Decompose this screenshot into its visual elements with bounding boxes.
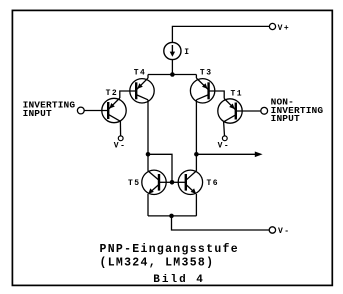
terminal inverting input xyxy=(77,107,84,114)
transistor T5 xyxy=(142,170,166,194)
svg-text:T1: T1 xyxy=(231,89,244,98)
wire: current source bottom to emitter rail xyxy=(171,60,173,75)
svg-text:T4: T4 xyxy=(134,69,147,78)
terminal non-inverting input xyxy=(261,107,268,114)
svg-text:PNP-Eingangsstufe: PNP-Eingangsstufe xyxy=(100,243,239,256)
svg-text:(LM324, LM358): (LM324, LM358) xyxy=(100,256,215,269)
wire: T6 emitter down xyxy=(195,194,197,216)
current source I xyxy=(164,42,181,59)
terminal V- under T1 xyxy=(222,136,227,141)
transistor T1 xyxy=(218,99,242,124)
svg-text:INPUT: INPUT xyxy=(23,108,52,119)
node: output junction xyxy=(194,152,199,157)
node: bottom rail junction xyxy=(169,214,174,219)
wire: bottom rail xyxy=(148,215,196,217)
svg-text:T5: T5 xyxy=(128,179,141,188)
wire: T1 collector down xyxy=(223,122,226,136)
wire: input to T2 base xyxy=(84,110,108,112)
svg-text:INPUT: INPUT xyxy=(271,113,300,124)
wire: T1 emitter to T3 base xyxy=(209,91,225,99)
svg-text:V-: V- xyxy=(114,142,127,151)
transistor T6 xyxy=(178,170,202,194)
wire: T5 emitter down xyxy=(147,194,149,216)
wire: current source top to V+ xyxy=(172,26,269,42)
svg-text:T2: T2 xyxy=(106,89,119,98)
wire: T6 base xyxy=(172,181,186,183)
transistor T4 xyxy=(130,75,154,104)
node: emitter rail junction xyxy=(170,72,175,77)
terminal V+ xyxy=(269,23,275,29)
wire: T2 collector down xyxy=(119,121,121,136)
wire: T4 collector down to mirror xyxy=(147,100,149,171)
transistor T2 xyxy=(102,98,126,123)
terminal V- bottom xyxy=(269,227,275,233)
svg-text:T6: T6 xyxy=(207,179,220,188)
wire: bottom rail to V- xyxy=(172,216,270,230)
svg-text:V+: V+ xyxy=(278,24,291,33)
node: T5/T6 base junction xyxy=(170,180,175,185)
svg-text:Bild 4: Bild 4 xyxy=(153,274,205,286)
wire: emitter rail xyxy=(148,74,196,76)
wire: T5 base xyxy=(159,181,172,183)
svg-text:T3: T3 xyxy=(200,69,213,78)
wire: mirror base feed xyxy=(148,154,172,182)
terminal V- under T2 xyxy=(118,136,123,141)
wire: T1 base to input xyxy=(236,110,261,112)
wire: T2 emitter to T4 base xyxy=(120,91,136,98)
wire: T3 collector down to mirror xyxy=(195,100,197,171)
svg-text:V-: V- xyxy=(278,227,291,236)
node: T4 collector / T5 junction xyxy=(146,152,151,157)
wire: output with arrow xyxy=(196,153,255,155)
svg-text:I: I xyxy=(184,48,190,57)
svg-text:V-: V- xyxy=(218,141,231,150)
transistor T3 xyxy=(190,75,214,104)
